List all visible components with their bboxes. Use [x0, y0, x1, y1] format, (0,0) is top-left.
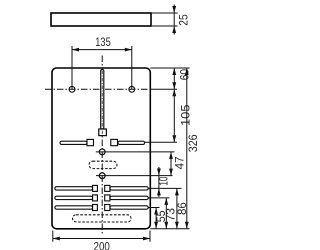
hole left	[69, 86, 75, 92]
dimension 135 line	[72, 49, 132, 51]
bottom row 2 left square	[93, 195, 98, 201]
centerline/extension through circle 2	[96, 175, 173, 177]
top view extension lines for 25	[151, 13, 178, 26]
svg-text:200: 200	[94, 240, 110, 250]
dimension 200 line	[53, 238, 150, 240]
dimension 86 line	[176, 188, 178, 228]
top view plate body	[51, 13, 151, 26]
svg-text:47: 47	[173, 156, 186, 169]
hole right	[129, 86, 135, 92]
dimension 135 arrows	[72, 48, 132, 52]
dimension 326 line	[186, 68, 188, 229]
front view plate outline	[52, 68, 150, 229]
dimension 55 line	[155, 208, 157, 229]
middle row left square	[87, 139, 94, 145]
extension line plate top right	[150, 67, 189, 69]
dashed obround 1	[89, 161, 117, 168]
bottom row 3 left slot	[55, 206, 93, 209]
dimension 200 extension lines	[53, 231, 150, 242]
svg-text:86: 86	[176, 202, 189, 215]
keyhole vertical slot	[101, 69, 104, 129]
middle row left slot	[60, 141, 87, 144]
bottom row 1 right slot	[110, 187, 148, 190]
extension line middle row	[145, 141, 177, 143]
dimension 47 line	[170, 152, 172, 176]
dimension 73 line	[165, 198, 167, 229]
arrows 86	[175, 188, 179, 228]
middle row right square	[111, 139, 118, 145]
svg-text:326: 326	[187, 134, 200, 152]
bottom row 1 left slot	[55, 187, 93, 190]
bottom row 2 right slot	[110, 196, 148, 199]
bottom row 1 right square	[105, 185, 110, 191]
dimension 135 extension lines	[72, 46, 132, 89]
extension line row 1	[148, 187, 181, 189]
dimension 60/105 line	[173, 68, 175, 142]
bottom row 3 right slot	[110, 206, 148, 209]
horizontal centerline through holes	[45, 88, 150, 90]
arrows 326	[185, 68, 189, 229]
arrows 10	[157, 169, 161, 196]
vertical centerline	[101, 56, 103, 234]
bottom row 3 right square	[105, 205, 110, 211]
arrows 73	[164, 198, 168, 229]
circle knockout 1	[99, 149, 105, 155]
bottom row 3 left square	[93, 205, 98, 211]
svg-text:105: 105	[179, 105, 192, 127]
bottom row 2 left slot	[55, 196, 93, 199]
arrows 105	[172, 89, 176, 142]
arrows 60	[172, 68, 176, 89]
arrows 55	[154, 208, 158, 229]
keyhole bottom square	[99, 129, 107, 136]
extension line row 3	[148, 207, 159, 209]
bottom row 1 left square	[93, 185, 98, 191]
svg-text:25: 25	[177, 14, 190, 26]
dashed obround 2	[73, 215, 132, 222]
bottom row 2 right square	[105, 195, 110, 201]
extension line right of hole centerline	[150, 88, 177, 90]
svg-text:135: 135	[95, 36, 110, 49]
dimension 25 arrows	[172, 6, 176, 33]
centerline/extension through circle 1	[96, 151, 175, 153]
arrows 200	[53, 237, 150, 241]
extension line row 2	[148, 197, 169, 199]
svg-text:10: 10	[158, 177, 171, 186]
dimension 25 line	[173, 5, 175, 35]
arrows 47	[169, 152, 173, 176]
extension line plate bottom right	[150, 228, 189, 230]
keyhole slot centerline	[101, 71, 103, 136]
middle row right slot	[118, 141, 145, 144]
circle knockout 2	[99, 173, 105, 179]
dimension 10 line segments	[158, 167, 160, 197]
